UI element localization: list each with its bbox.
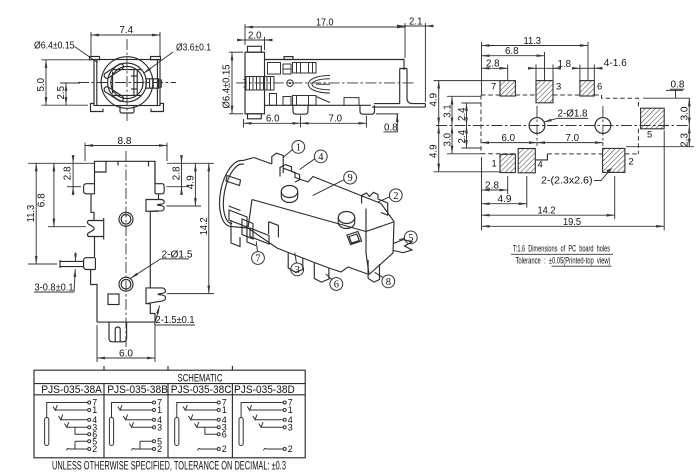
dimension 4.9 bottom: [482, 203, 527, 205]
dimension 2.3 right: [688, 126, 690, 147]
front view top-right tab: [151, 57, 161, 60]
dimension 4-1.6: [580, 67, 594, 69]
sleeve bar A: [45, 418, 49, 446]
balloon 6: [330, 278, 343, 291]
svg-text:2.0: 2.0: [248, 31, 262, 42]
dimension 2.5: [65, 83, 67, 105]
leg 8: [368, 260, 379, 282]
svg-text:14.2: 14.2: [199, 217, 210, 235]
internal contact chords: [113, 69, 141, 71]
square hole: [347, 232, 362, 245]
dimension 2.0: [245, 39, 265, 41]
svg-text:2.8: 2.8: [485, 181, 499, 192]
right end face: [369, 204, 394, 275]
svg-text:3: 3: [295, 265, 300, 276]
lower-left diagonal slot: [103, 86, 125, 103]
svg-text:3.0: 3.0: [680, 106, 691, 120]
svg-text:6.0: 6.0: [502, 133, 516, 144]
lower hole: [119, 277, 133, 291]
svg-text:7.0: 7.0: [329, 113, 343, 124]
balloon 8: [382, 275, 395, 288]
hole 2 Ø1.8: [595, 118, 611, 134]
body outline: [95, 161, 156, 183]
svg-text:1: 1: [296, 142, 301, 153]
svg-text:2.1: 2.1: [409, 17, 423, 28]
dimension 2.1: [405, 25, 425, 27]
terminal circles B: [153, 401, 156, 404]
svg-text:2: 2: [393, 191, 398, 202]
barrel outer circle: [101, 57, 153, 109]
terminal numbers A: [92, 398, 97, 455]
table frame: [34, 370, 305, 458]
svg-text:4.9: 4.9: [429, 93, 440, 107]
tab 2: [362, 192, 388, 215]
svg-text:2: 2: [222, 444, 227, 454]
dimensions 2.4 / 2.4: [466, 103, 468, 126]
dimension 4.9 right: [194, 163, 196, 206]
left tab 2 with terminal pin 3-0.8: [84, 258, 97, 322]
schematic cell B: [109, 398, 162, 455]
dimension 3.0 right: [688, 98, 690, 125]
pad 7: [500, 81, 515, 96]
svg-text:4: 4: [318, 152, 324, 163]
svg-text:6.8: 6.8: [36, 193, 47, 207]
balloon 2: [389, 189, 402, 202]
knurled bushing through flange: [244, 77, 275, 91]
svg-text:14.2: 14.2: [538, 206, 556, 217]
right fork 2: [146, 288, 166, 322]
terminal numbers C: [222, 398, 227, 455]
svg-text:2-(2.3x2.6): 2-(2.3x2.6): [541, 176, 593, 187]
bottom edge: [97, 321, 155, 323]
svg-text:PJS-035-38A: PJS-035-38A: [41, 384, 102, 396]
svg-text:6.8: 6.8: [505, 46, 519, 57]
svg-text:2: 2: [92, 444, 97, 454]
dimensions 3.1 / 3.0: [451, 96, 453, 125]
dimension 14.2: [482, 214, 615, 216]
svg-text:2: 2: [288, 444, 293, 454]
svg-text:2.3: 2.3: [680, 133, 691, 147]
upper hole: [119, 212, 133, 226]
svg-text:2.4: 2.4: [457, 107, 468, 121]
svg-text:1: 1: [222, 405, 227, 415]
right terminal pin: [400, 69, 426, 104]
right fork 1: [146, 200, 164, 288]
front view top-left tab: [90, 57, 100, 60]
dimension 0.8 standoff: [376, 113, 399, 115]
svg-text:1: 1: [92, 405, 97, 415]
svg-text:2: 2: [629, 155, 634, 166]
dimension 11.3 left: [35, 163, 37, 264]
svg-text:Ø6.4±0.15: Ø6.4±0.15: [222, 64, 233, 108]
dimension 19.5: [482, 225, 665, 227]
front view body shield outline: [94, 60, 160, 106]
balloon 5: [404, 231, 417, 244]
body bottom edge: [265, 104, 372, 106]
right side: tab 1: [155, 161, 164, 199]
front face slot: [269, 222, 279, 238]
svg-text:3: 3: [556, 81, 561, 92]
dimension 2.8 bottom: [482, 189, 508, 191]
svg-text:2-Ø1.8: 2-Ø1.8: [558, 109, 588, 120]
balloon 3: [291, 263, 304, 276]
center pin verticals: [133, 70, 135, 96]
svg-text:4: 4: [538, 159, 543, 170]
pad 6: [580, 81, 594, 96]
svg-text:2.8: 2.8: [171, 166, 182, 180]
terminal numbers D: [288, 398, 293, 455]
jack bore circle Ø3.6: [111, 66, 143, 98]
left ear tab 1: [84, 184, 95, 221]
dimension 7.0: [301, 122, 367, 124]
svg-text:2.8: 2.8: [63, 166, 74, 180]
pad 2: [603, 148, 625, 172]
svg-text:5: 5: [647, 129, 652, 140]
dimension 6.8 left: [53, 163, 55, 226]
svg-text:PJS-035-38C: PJS-035-38C: [171, 384, 232, 396]
contact lines C: [183, 405, 217, 410]
left mounting foot: [91, 104, 104, 112]
contact lines A: [53, 405, 88, 410]
sleeve bar D: [239, 418, 243, 446]
fork tab 5: [394, 240, 413, 253]
schematic cell D: [239, 398, 293, 455]
svg-text:PJS-035-38D: PJS-035-38D: [234, 384, 295, 396]
svg-text:4-1.6: 4-1.6: [604, 58, 627, 69]
internal square: [108, 294, 119, 305]
dimension 2.8 left: [72, 163, 74, 186]
svg-text:Tolerance : ±0.05(Printed-to: Tolerance : ±0.05(Printed-top view): [516, 256, 611, 267]
extension lines top: [481, 42, 483, 95]
tab 4: [280, 165, 300, 182]
svg-text:5.0: 5.0: [36, 78, 47, 92]
svg-text:1: 1: [288, 405, 293, 415]
schematic cell A: [45, 398, 98, 455]
svg-text:7.0: 7.0: [566, 133, 580, 144]
barrel ring circle: [108, 63, 147, 102]
pad 5: [641, 108, 665, 129]
svg-text:1.8: 1.8: [558, 59, 572, 70]
dimension 6.0: [244, 122, 301, 124]
dimension 8.8: [85, 145, 167, 147]
svg-text:6: 6: [222, 429, 227, 439]
svg-text:4.9: 4.9: [429, 144, 440, 158]
dimension 6.0 bottom: [97, 357, 155, 359]
balloon 1: [292, 141, 305, 154]
terminal circles C: [217, 401, 220, 404]
svg-text:3.0: 3.0: [442, 133, 453, 147]
dimension 6.8: [482, 55, 545, 57]
flange: [245, 52, 265, 114]
svg-text:7.4: 7.4: [120, 25, 134, 36]
upper internal contacts: [268, 63, 317, 75]
leg 6: [314, 263, 329, 283]
dimension 7.0 PCB: [537, 142, 603, 144]
svg-text:4.9: 4.9: [185, 175, 196, 189]
left fork contact: [87, 218, 103, 258]
balloon 7: [252, 252, 265, 265]
dimension 5.0: [45, 60, 47, 105]
foot 1: [293, 105, 308, 114]
upper-left diagonal slot: [103, 63, 125, 80]
dimension 2.8 right: [181, 163, 183, 186]
dimension 2.8: [482, 67, 508, 69]
svg-text:2.5: 2.5: [56, 86, 67, 100]
top bump 1: [281, 186, 297, 198]
sleeve bar C: [175, 418, 179, 446]
svg-text:6.0: 6.0: [266, 113, 280, 124]
dimension Ø6.4±0.15 vertical: [231, 52, 233, 114]
svg-text:0.8: 0.8: [671, 79, 685, 90]
dimension 17.0: [245, 26, 405, 28]
pivot circle: [287, 80, 294, 87]
svg-text:PJS-035-38B: PJS-035-38B: [107, 384, 168, 396]
svg-text:11.3: 11.3: [524, 36, 542, 47]
top bump: [284, 57, 293, 60]
dimension 14.2 right: [208, 163, 210, 293]
svg-text:9: 9: [348, 173, 353, 184]
dimension 6.0 PCB: [481, 142, 537, 144]
svg-text:1: 1: [492, 157, 497, 168]
PCB outline dashed: [481, 94, 500, 96]
terminal numbers B: [157, 398, 162, 455]
svg-text:SCHEMATIC: SCHEMATIC: [178, 373, 223, 385]
body far top edge: [254, 158, 381, 204]
bottom U prong: [109, 322, 127, 342]
bottom front edge: [248, 228, 369, 275]
svg-text:3: 3: [157, 422, 162, 432]
leg 3: [288, 253, 303, 273]
balloon 9: [344, 171, 357, 184]
barrel cylinder: [220, 158, 254, 229]
svg-text:8: 8: [386, 277, 391, 288]
svg-text:6.0: 6.0: [119, 348, 133, 359]
svg-text:6: 6: [597, 81, 602, 92]
near ridge of top face: [248, 200, 394, 275]
top bump 2: [338, 212, 354, 224]
centerline horizontal: [78, 82, 176, 84]
terminal circles D: [283, 401, 286, 404]
svg-text:5: 5: [408, 233, 413, 244]
terminal circles A: [88, 401, 91, 404]
bottom center tab: [120, 106, 134, 114]
svg-text:2.4: 2.4: [457, 130, 468, 144]
svg-text:19.5: 19.5: [563, 217, 581, 228]
balloon 4: [314, 150, 327, 163]
hole 1 Ø1.8: [529, 118, 545, 134]
dimension 11.3: [482, 45, 589, 47]
U spring contact: [308, 76, 330, 94]
svg-text:8.8: 8.8: [118, 136, 132, 147]
bottom bent lead: [372, 104, 425, 108]
svg-text:3: 3: [288, 422, 293, 432]
lower internal contacts: [270, 94, 360, 106]
centerline vertical: [126, 39, 128, 121]
svg-text:UNLESS OTHERWISE SPECIFIED, TO: UNLESS OTHERWISE SPECIFIED, TOLERANCE ON…: [52, 459, 286, 473]
schematic cell C: [175, 398, 227, 455]
tab 1: [272, 153, 283, 168]
svg-text:Ø3.6±0.1: Ø3.6±0.1: [176, 43, 211, 54]
foot 2: [360, 105, 375, 114]
side view centerline: [236, 82, 416, 84]
contact lines B: [118, 405, 153, 410]
sleeve bar B: [109, 418, 113, 446]
body top edge: [265, 60, 405, 71]
pad 1: [500, 154, 515, 172]
svg-text:7: 7: [255, 254, 260, 265]
right side pin block: [146, 79, 159, 88]
svg-text:6: 6: [334, 280, 339, 291]
left lower bracket cluster (pin 7 area): [229, 210, 269, 244]
dimension 1.8: [536, 67, 553, 69]
horizontal centerline: [436, 125, 690, 127]
svg-text:Ø6.4±0.15: Ø6.4±0.15: [34, 41, 75, 52]
vertical centerline: [125, 151, 127, 350]
dimension 4.9 right of side view: [438, 81, 440, 126]
svg-text:11.3: 11.3: [26, 205, 37, 223]
svg-text:4.9: 4.9: [498, 194, 512, 205]
right mounting foot: [151, 104, 164, 112]
svg-text:T:1.6 Dimensions of PC boa: T:1.6 Dimensions of PC board holes: [513, 244, 610, 255]
svg-text:17.0: 17.0: [316, 18, 334, 29]
svg-text:1: 1: [157, 405, 162, 415]
pad 3: [536, 81, 553, 103]
svg-text:2: 2: [157, 444, 162, 454]
contact lines D: [247, 405, 283, 410]
svg-text:7: 7: [491, 81, 496, 92]
pad 4: [518, 149, 535, 173]
svg-text:3.1: 3.1: [442, 104, 453, 118]
svg-text:2.8: 2.8: [486, 59, 500, 70]
dimension 7.4: [91, 34, 160, 36]
